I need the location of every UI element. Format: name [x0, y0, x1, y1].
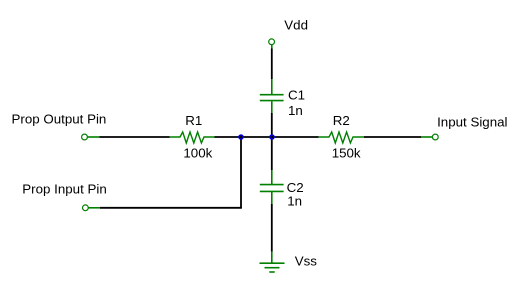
wire: black C1 to main wire junction — [271, 113, 273, 137]
svg-text:Prop Input Pin: Prop Input Pin — [22, 181, 106, 196]
wire: green stub above ground — [271, 252, 273, 263]
ground Vss — [260, 253, 318, 272]
wire: green stub from Prop Output Pin terminal — [88, 136, 100, 138]
svg-text:C1: C1 — [288, 88, 305, 103]
terminal: Prop Output Pin — [12, 111, 107, 140]
capacitor C2 — [260, 170, 304, 209]
wire: main horizontal black, terminal to R1 — [100, 136, 170, 138]
capacitor C1 — [260, 79, 305, 118]
wire: green stub below Vdd terminal — [271, 45, 273, 49]
svg-text:100k: 100k — [183, 145, 212, 160]
svg-text:R1: R1 — [185, 113, 202, 128]
resistor R2 — [319, 113, 365, 160]
wire: black junction down to C2 — [271, 137, 273, 170]
wire: black C2 down to ground — [271, 204, 273, 252]
junction node B (capacitor branch) — [269, 134, 275, 140]
svg-text:Vss: Vss — [295, 253, 318, 268]
wire: green stub at Input Signal terminal — [421, 136, 432, 138]
svg-text:Prop Output Pin: Prop Output Pin — [12, 111, 107, 126]
svg-text:R2: R2 — [333, 113, 350, 128]
svg-text:C2: C2 — [287, 180, 304, 195]
svg-text:Input Signal: Input Signal — [437, 114, 507, 129]
wire: black Vdd down to C1 — [271, 49, 273, 80]
wire: green stub at Prop Input Pin terminal — [88, 207, 100, 209]
terminal: Input Signal pin — [432, 114, 507, 140]
svg-text:1n: 1n — [288, 103, 303, 118]
svg-text:150k: 150k — [332, 145, 361, 160]
svg-text:1n: 1n — [287, 194, 302, 209]
resistor R1 — [170, 113, 215, 160]
wire: black horizontal Prop Input Pin run — [100, 207, 242, 209]
wire: black from R2 to Input Signal terminal — [364, 136, 421, 138]
terminal: Vdd power pin — [269, 17, 308, 44]
wire: black between R1 and R2 through junctions — [215, 136, 319, 138]
junction node A (R1 side) — [238, 134, 244, 140]
svg-text:Vdd: Vdd — [284, 17, 308, 32]
terminal: Prop Input Pin — [22, 181, 106, 210]
wire: black vertical from left junction down — [240, 137, 242, 208]
